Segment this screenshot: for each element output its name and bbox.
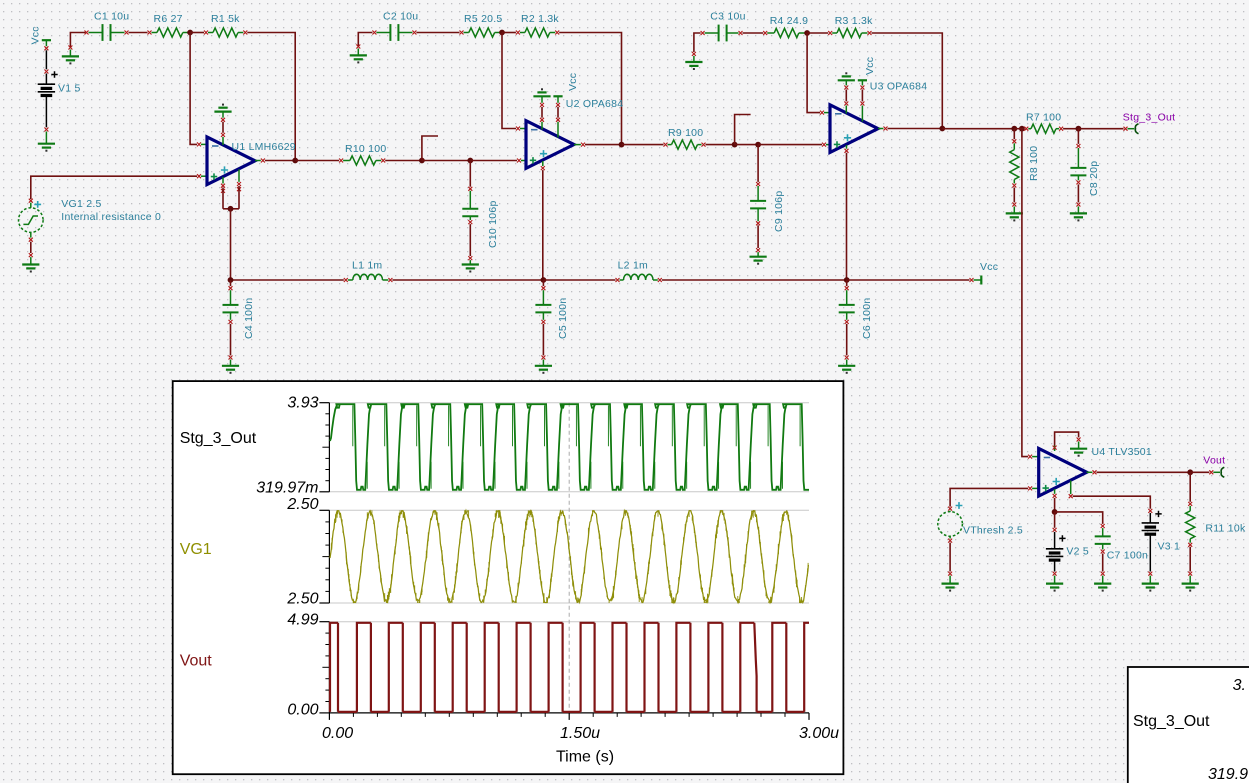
- svg-text:R6 27: R6 27: [154, 13, 183, 25]
- svg-text:Vcc: Vcc: [567, 73, 579, 91]
- svg-text:U3 OPA684: U3 OPA684: [870, 81, 928, 93]
- ground stage2 input: [356, 45, 360, 49]
- svg-text:VThresh 2.5: VThresh 2.5: [963, 525, 1023, 537]
- svg-text:VG1: VG1: [180, 541, 212, 558]
- wire VG1-ground: [30, 232, 32, 237]
- wire R1 feedback down to U1 output: [247, 33, 295, 161]
- svg-text:3.: 3.: [1233, 677, 1246, 694]
- svg-text:R10 100: R10 100: [345, 143, 386, 155]
- battery V3 1: [1148, 509, 1152, 513]
- capacitor C4 100n: [230, 280, 232, 286]
- wire U2 minus input from fb node: [502, 33, 516, 129]
- wire U2out-R9: [622, 144, 664, 146]
- inductor L2 1m: [616, 278, 620, 282]
- wire U4 output: [1087, 471, 1093, 473]
- op-amp U4 TLV3501: [1028, 455, 1032, 459]
- svg-text:VG1 2.5: VG1 2.5: [61, 198, 101, 210]
- wire rail segment 4: [662, 279, 847, 281]
- wire junction-R3: [807, 32, 828, 34]
- node U1 V- junction: [228, 206, 234, 212]
- node rail C6 junction: [844, 277, 850, 283]
- power Vcc terminal V1: [42, 39, 51, 41]
- wire V3-ground: [1149, 536, 1151, 572]
- svg-text:C3 10u: C3 10u: [710, 11, 745, 23]
- node Vout junction: [1187, 469, 1193, 475]
- source VThresh 2.5: [948, 507, 952, 511]
- resistor R11 10k: [1189, 472, 1191, 502]
- svg-text:R2 1.3k: R2 1.3k: [521, 13, 559, 25]
- node stub junction stage2: [419, 158, 425, 164]
- svg-text:R8 100: R8 100: [1028, 146, 1040, 181]
- svg-text:Time (s): Time (s): [556, 749, 614, 766]
- wire C2-R5: [416, 32, 459, 34]
- node stage1 fb junction: [187, 30, 193, 36]
- svg-text:C9 106p: C9 106p: [773, 191, 785, 232]
- wire stub stage2: [422, 136, 438, 161]
- svg-text:Vcc: Vcc: [30, 26, 42, 44]
- resistor R7 100: [1024, 127, 1028, 131]
- wire C10node-U2plus: [470, 160, 517, 162]
- terminal Vout: [1190, 471, 1209, 473]
- svg-text:R5 20.5: R5 20.5: [464, 13, 503, 25]
- wire VG1 to U1 plus input: [31, 176, 197, 199]
- svg-text:V1 5: V1 5: [58, 83, 81, 95]
- wire U4 V+ pin to ground: [1054, 446, 1056, 452]
- wire V2-ground: [1054, 562, 1056, 572]
- svg-text:R11 10k: R11 10k: [1205, 523, 1246, 535]
- svg-text:R9 100: R9 100: [668, 127, 703, 139]
- wire rail segment 1: [231, 279, 344, 281]
- wire junction-R1: [190, 32, 204, 34]
- svg-text:R4 24.9: R4 24.9: [770, 15, 809, 27]
- terminal Stg_3_Out: [1124, 127, 1128, 131]
- capacitor C5 100n: [542, 280, 544, 286]
- node rail C4 junction: [228, 277, 234, 283]
- wire V1-ground: [45, 97, 47, 127]
- wire U1 V- to rail: [230, 209, 232, 280]
- svg-text:C6 100n: C6 100n: [861, 298, 873, 339]
- trace Vout maroon square: [330, 623, 809, 712]
- ground stage1 input: [68, 46, 72, 50]
- svg-text:U1 LMH6629: U1 LMH6629: [232, 141, 296, 153]
- wire R7-C8 node: [1063, 128, 1078, 130]
- battery V1 5: [45, 74, 47, 85]
- resistor R3 1.3k: [828, 31, 832, 35]
- wire U4 second pin to V3: [1070, 481, 1072, 495]
- node C8 junction: [1076, 126, 1082, 132]
- node C9 junction: [755, 142, 761, 148]
- wire U3 output: [878, 128, 883, 130]
- svg-text:1.50u: 1.50u: [560, 725, 600, 742]
- node U4 feed junction: [1019, 126, 1025, 132]
- plot x axis: [329, 712, 809, 714]
- op-amp U3 OPA684: [820, 111, 824, 115]
- capacitor C3 10u: [701, 31, 705, 35]
- plot window 2 frame: [1128, 667, 1249, 783]
- svg-text:C2 10u: C2 10u: [383, 11, 418, 23]
- wire to C10 node: [422, 160, 470, 162]
- resistor R9 100: [664, 143, 668, 147]
- wire stage1 input stub: [70, 33, 85, 49]
- capacitor C7 100n: [1101, 524, 1105, 528]
- capacitor C1: [85, 31, 89, 35]
- battery V2 5: [1054, 512, 1056, 528]
- capacitor C6 100n: [846, 280, 848, 286]
- svg-text:319.97m: 319.97m: [256, 479, 318, 496]
- capacitor C8 20p: [1077, 129, 1079, 144]
- svg-text:2.50: 2.50: [286, 591, 318, 608]
- node U2 output junction: [619, 142, 625, 148]
- ground V3: [1149, 576, 1151, 584]
- svg-text:0.00: 0.00: [287, 701, 318, 718]
- wire U3out to R8 node: [942, 128, 1014, 130]
- ground C5: [542, 360, 544, 366]
- node R8 junction: [1011, 126, 1017, 132]
- svg-text:V3 1: V3 1: [1158, 541, 1181, 553]
- wire rail segment 2: [392, 279, 543, 281]
- resistor R2 1.3k: [516, 31, 520, 35]
- wire VThresh-ground: [949, 536, 951, 538]
- node C10 junction: [467, 158, 473, 164]
- resistor R8 100: [1013, 129, 1015, 140]
- ground VG1: [30, 257, 32, 264]
- wire U3 V- pin to rail: [846, 145, 848, 149]
- ground U4: [1078, 442, 1080, 449]
- wire stage3 input stub: [694, 33, 701, 52]
- svg-text:0.00: 0.00: [322, 725, 353, 742]
- wire rail segment 5: [847, 279, 970, 281]
- ground C7: [1102, 576, 1104, 584]
- capacitor C9 106p: [757, 145, 759, 182]
- resistor R5 20.5: [460, 31, 464, 35]
- power Vcc terminal rail: [970, 278, 974, 282]
- plot gridlines: [329, 402, 809, 404]
- wire C8node-terminal: [1078, 128, 1123, 130]
- ground U3 V+ pin: [838, 79, 855, 81]
- resistor R6: [148, 31, 152, 35]
- wire U2 V- pin to rail: [542, 161, 544, 166]
- wire U1 V- pins to node: [222, 177, 224, 184]
- ground U2 V+ pin: [533, 95, 550, 97]
- svg-text:Vcc: Vcc: [980, 261, 998, 273]
- svg-text:U4 TLV3501: U4 TLV3501: [1092, 446, 1153, 458]
- wire C1-R6: [129, 32, 148, 34]
- source VG1 2.5: [29, 199, 33, 203]
- wire VThresh to U4 plus: [950, 488, 1028, 506]
- ground stage3 input: [692, 52, 696, 56]
- svg-text:Vout: Vout: [180, 652, 213, 669]
- wire R8node down to U4 minus: [1022, 129, 1028, 457]
- wire U4 V- pin down: [1054, 489, 1056, 494]
- ground V2: [1054, 576, 1056, 584]
- node rail C5 junction: [541, 277, 547, 283]
- wire U1out-R10: [295, 160, 339, 162]
- svg-text:R3 1.3k: R3 1.3k: [835, 15, 873, 27]
- ground V1: [45, 132, 47, 144]
- svg-text:C7 100n: C7 100n: [1107, 550, 1148, 562]
- svg-text:C4 100n: C4 100n: [243, 298, 255, 339]
- op-amp U2 OPA684: [516, 127, 520, 131]
- plot cursor dashed line: [568, 403, 570, 713]
- wire rail segment 3: [543, 279, 615, 281]
- plot y axis: [328, 403, 330, 492]
- trace VG1 olive sine: [330, 511, 808, 603]
- wire R10-U2: [385, 160, 422, 162]
- ground C6: [846, 360, 848, 366]
- svg-text:C10 106p: C10 106p: [487, 200, 499, 248]
- svg-text:Stg_3_Out: Stg_3_Out: [1123, 111, 1175, 123]
- wire R9-C9 node: [706, 144, 735, 146]
- node stub junction stage3: [732, 142, 738, 148]
- wire stage2 input stub: [358, 33, 372, 48]
- ground R8: [1013, 207, 1015, 214]
- node U3 output junction: [939, 126, 945, 132]
- svg-text:Stg_3_Out: Stg_3_Out: [180, 430, 257, 447]
- ground C4: [230, 360, 232, 366]
- wire R3 feedback down to U3 output: [872, 33, 943, 129]
- plot window frame: [173, 381, 844, 774]
- inductor L1 1m: [344, 278, 348, 282]
- svg-text:C8 20p: C8 20p: [1088, 161, 1100, 196]
- svg-text:3.93: 3.93: [287, 395, 318, 412]
- wire R2 feedback down to U2 output: [559, 33, 621, 145]
- ground C10: [469, 260, 471, 264]
- wire Vcc-V1: [45, 40, 47, 46]
- wire C9node-U3plus: [758, 144, 822, 146]
- svg-text:3.00u: 3.00u: [799, 725, 839, 742]
- ground U1 V+ pin: [214, 110, 231, 112]
- ground C8: [1077, 207, 1079, 214]
- svg-text:U2 OPA684: U2 OPA684: [566, 98, 624, 110]
- svg-text:319.97m: 319.97m: [1208, 766, 1249, 783]
- svg-text:V2 5: V2 5: [1066, 546, 1089, 558]
- power Vcc terminal U3: [858, 79, 867, 81]
- svg-text:2.50: 2.50: [286, 496, 318, 513]
- capacitor C10 106p: [469, 161, 471, 187]
- svg-text:L2 1m: L2 1m: [618, 260, 648, 272]
- wire to C9 node: [735, 144, 759, 146]
- svg-text:R1 5k: R1 5k: [211, 13, 240, 25]
- resistor R4 24.9: [763, 31, 767, 35]
- resistor R1: [204, 31, 208, 35]
- svg-text:4.99: 4.99: [287, 612, 318, 629]
- power Vcc terminal U2: [553, 95, 562, 97]
- svg-text:Vcc: Vcc: [864, 57, 876, 75]
- ground R11: [1189, 576, 1191, 584]
- svg-text:Vout: Vout: [1203, 455, 1225, 467]
- wire C3-R4: [743, 32, 764, 34]
- wire junction-R2: [502, 32, 516, 34]
- node stage2 fb junction: [499, 30, 505, 36]
- ground VThresh: [949, 576, 951, 584]
- node stage3 fb junction: [804, 30, 810, 36]
- capacitor C2 10u: [372, 31, 376, 35]
- wire V2 node to C7: [1055, 512, 1103, 524]
- svg-text:C5 100n: C5 100n: [557, 298, 569, 339]
- node V2 junction: [1052, 509, 1058, 515]
- wire U1 output: [255, 160, 261, 162]
- wire stub stage3: [735, 115, 751, 145]
- trace Stg_3_Out green: [330, 404, 809, 490]
- wire U1 minus input from fb node: [190, 33, 197, 145]
- op-amp U1 LMH6629: [197, 142, 201, 146]
- resistor R10 100: [339, 159, 343, 163]
- svg-text:L1 1m: L1 1m: [352, 260, 382, 272]
- svg-text:Internal resistance 0: Internal resistance 0: [61, 211, 161, 223]
- svg-text:Stg_3_Out: Stg_3_Out: [1133, 713, 1210, 730]
- wire U2 output: [574, 144, 581, 146]
- node U1 output junction: [292, 158, 298, 164]
- wire U3 minus input from fb node: [807, 33, 820, 113]
- ground C9: [757, 252, 759, 257]
- svg-text:R7 100: R7 100: [1026, 112, 1061, 124]
- svg-text:C1 10u: C1 10u: [94, 11, 129, 23]
